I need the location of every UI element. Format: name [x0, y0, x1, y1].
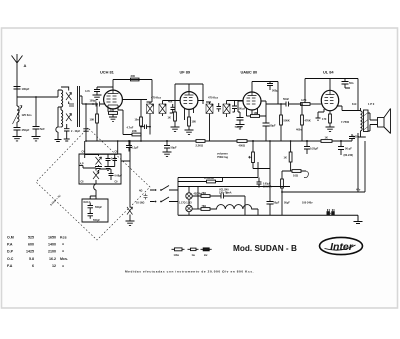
coil T1 secondary winding: [58, 107, 63, 127]
svg-text:500pF: 500pF: [93, 219, 100, 222]
svg-text:300: 300: [131, 74, 136, 78]
grid leak wire: [316, 112, 325, 120]
speaker cone: [384, 109, 391, 134]
capacitor 450pF to ground: [14, 122, 30, 137]
cathode resistor UCH81: [90, 103, 99, 141]
svg-text:500pF: 500pF: [95, 206, 102, 209]
svg-text:100pF: 100pF: [22, 87, 30, 91]
svg-text:1425: 1425: [26, 250, 34, 254]
wire osc box to padder box: [90, 196, 96, 199]
capacitor 100pF antenna series: [14, 87, 30, 92]
screen resistor UF89: [168, 112, 177, 127]
svg-text:2100: 2100: [48, 250, 56, 254]
svg-text:500K: 500K: [284, 119, 290, 123]
capacitor 100pF detector: [232, 101, 246, 113]
coil T1 primary winding: [58, 90, 63, 107]
dashed diamond chassis outline: [36, 128, 150, 240]
UL84 pin wires: [324, 79, 361, 115]
legend resistor one watt: [188, 248, 199, 257]
svg-text:2 - 10pF: 2 - 10pF: [71, 130, 81, 133]
ground second branch: [32, 137, 41, 141]
svg-text:=: =: [62, 264, 64, 268]
tube UABC80 envelope: [243, 92, 261, 110]
resistor dropper vertical: [281, 171, 284, 215]
svg-text:600: 600: [28, 243, 34, 247]
resistor 1K IF decoupling: [135, 100, 143, 142]
UABC80 electrodes: [247, 92, 257, 104]
dial lamp 2: [179, 202, 192, 212]
svg-text:10K: 10K: [90, 118, 95, 122]
svg-text:UCH 81: UCH 81: [100, 70, 115, 75]
svg-text:Mod. SUDAN - B: Mod. SUDAN - B: [233, 243, 297, 253]
svg-text:M.O.C: M.O.C: [84, 201, 91, 204]
cathode resistor 170: [322, 114, 331, 127]
volume potentiometer 750 log: [249, 140, 271, 169]
resistor 470 heater top: [198, 177, 223, 183]
oscillator box outline: [79, 154, 121, 184]
svg-text:4.7nF: 4.7nF: [127, 126, 134, 130]
UCH81 electrodes: [107, 90, 119, 107]
ground antenna branch: [13, 137, 22, 141]
svg-text:50 μF: 50 μF: [345, 147, 352, 151]
svg-text:1w: 1w: [192, 254, 195, 257]
ground aerial coil unit: [55, 127, 62, 142]
svg-text:1/2w: 1/2w: [174, 254, 179, 257]
capacitor 50nF plate bus: [342, 81, 354, 88]
wire branch x36: [35, 97, 37, 127]
capacitor 50nF coupling: [283, 97, 301, 107]
screen bus with 22K: [123, 110, 132, 135]
capacitor 0.05uF plate UABC80: [267, 82, 278, 93]
svg-text:4.7n: 4.7n: [85, 90, 90, 93]
wire antenna node to coil unit: [17, 96, 58, 98]
svg-text:6-98pF: 6-98pF: [115, 176, 123, 178]
svg-text:50nF: 50nF: [283, 97, 289, 101]
capacitor 0.25uF filter: [304, 136, 359, 155]
main AVC bus: [86, 134, 355, 141]
resistor 78 row2: [192, 205, 210, 211]
capacitor 0.05uF 250VCA: [257, 178, 273, 189]
svg-text:1K: 1K: [284, 156, 287, 160]
svg-text:5nF: 5nF: [40, 127, 45, 131]
capacitor 100pF grid series: [90, 100, 100, 107]
osc cap C2: [99, 155, 118, 166]
junction node: [35, 96, 37, 98]
svg-text:F.A: F.A: [7, 264, 13, 268]
dial lamp 1: [186, 193, 202, 200]
svg-text:0.25μ: 0.25μ: [353, 136, 360, 139]
svg-text:1400: 1400: [48, 243, 56, 247]
UF89 pin wires: [185, 84, 205, 120]
oscillator grid tap wire: [121, 141, 130, 161]
electrolytic 50uF detector: [263, 116, 276, 141]
svg-text:2w: 2w: [204, 254, 207, 257]
svg-text:Mcs.: Mcs.: [60, 257, 68, 261]
tube UCH81 envelope: [104, 90, 123, 109]
detector output wire: [266, 103, 286, 105]
svg-text:1M: 1M: [254, 111, 258, 115]
ground line x130: [126, 221, 135, 225]
wave band table: [7, 236, 68, 268]
svg-text:10-16Ω: 10-16Ω: [136, 202, 144, 205]
svg-text:50μF: 50μF: [270, 124, 276, 128]
capacitor 4.7nF screen: [127, 125, 151, 130]
dropper wavy resistor: [210, 205, 258, 216]
heater box outline wires: [178, 162, 290, 215]
svg-text:125 Kcs: 125 Kcs: [22, 113, 33, 117]
ground AF cap: [236, 125, 245, 129]
IF1 primary tuned trimmer: [147, 102, 154, 118]
svg-text:(80-240): (80-240): [344, 154, 354, 157]
electrolytic reservoir 50uF: [338, 140, 353, 157]
IF2 pin wires: [206, 101, 243, 142]
mains switch arm 1: [150, 186, 178, 191]
IF2 primary tuned trimmer: [206, 102, 213, 118]
svg-text:O.M: O.M: [7, 236, 14, 240]
resistor 2.2K bus: [196, 140, 206, 148]
cap 6-98pF: [99, 169, 123, 180]
resistor 1K filter: [321, 136, 332, 143]
svg-text:12: 12: [52, 264, 56, 268]
svg-text:470Ω/4w: 470Ω/4w: [204, 177, 214, 180]
legend resistor two watt: [201, 248, 212, 257]
svg-text:470 Kcs: 470 Kcs: [151, 96, 162, 100]
capacitor 4.7n osc decoupling: [85, 87, 113, 99]
svg-text:A: A: [24, 63, 27, 68]
svg-text:22K: 22K: [132, 129, 137, 133]
UF89 electrodes: [184, 92, 194, 104]
mains switch arm 2: [150, 197, 178, 202]
svg-text:16.2: 16.2: [49, 257, 56, 261]
svg-text:180: 180: [192, 120, 197, 124]
svg-text:0.25μF: 0.25μF: [310, 147, 319, 151]
gang series capacitor: [83, 129, 88, 131]
wire tuning gang line: [85, 104, 87, 141]
svg-text:470K: 470K: [305, 119, 311, 123]
electrolytic 50uF bus: [163, 140, 177, 156]
capacitor padding aerial: [69, 104, 74, 106]
transformer secondary return wires: [368, 113, 370, 131]
resistor 4.7K series grid: [301, 98, 322, 105]
svg-text:Inter: Inter: [330, 241, 354, 253]
svg-text:=: =: [62, 250, 64, 254]
padder cap 500pF lower: [88, 211, 101, 222]
tube UL84 envelope: [321, 90, 338, 110]
svg-text:78Ω: 78Ω: [202, 192, 207, 195]
UCH81 pin wires: [108, 80, 147, 112]
IF1 secondary tuned trimmer: [159, 101, 166, 117]
resistor 78 row1: [192, 192, 221, 198]
svg-text:=: =: [62, 243, 64, 247]
resistor 47 ohm: [109, 108, 118, 115]
capacitor 5nF to ground: [33, 127, 46, 137]
speaker tap labels: [136, 190, 148, 205]
osc cap C3: [113, 155, 118, 165]
svg-text:400Ω: 400Ω: [239, 143, 245, 147]
svg-text:1K: 1K: [325, 136, 328, 140]
svg-text:D.P: D.P: [7, 250, 14, 254]
output transformer T2: [341, 108, 368, 137]
IF2 coupling capacitor: [217, 103, 222, 112]
svg-text:5.8: 5.8: [29, 257, 34, 261]
47v rail: [282, 141, 365, 192]
svg-text:170: 170: [322, 117, 327, 121]
svg-text:100pF: 100pF: [90, 100, 98, 103]
svg-text:Kcs: Kcs: [60, 236, 67, 240]
resistor 1M diode load: [247, 111, 267, 118]
ground pin UCH81: [109, 114, 117, 121]
resistor 1K smoothing: [284, 140, 293, 171]
svg-text:10n: 10n: [135, 119, 140, 122]
svg-text:750Ω log: 750Ω log: [217, 155, 228, 159]
svg-text:1 P 0: 1 P 0: [368, 102, 375, 106]
svg-text:10Ω: 10Ω: [293, 173, 298, 177]
svg-text:UABC 80: UABC 80: [241, 70, 258, 75]
svg-text:100-240v: 100-240v: [302, 202, 313, 205]
ground UL84 cathode: [326, 127, 335, 131]
svg-text:6: 6: [32, 264, 34, 268]
lamp column wires: [188, 187, 190, 216]
top bus UL84: [305, 79, 358, 111]
svg-text:Medidas efectuadas con instrum: Medidas efectuadas con instrumento de 20…: [125, 270, 254, 274]
core lines T1: [78, 86, 80, 127]
svg-text:O.C: O.C: [7, 257, 14, 261]
wire coil secondary top to UCH81 grid: [80, 96, 105, 104]
svg-text:4.7K: 4.7K: [301, 98, 307, 102]
svg-text:UF 89: UF 89: [180, 70, 191, 75]
osc box top pin C4: [84, 141, 86, 154]
svg-text:250VCA: 250VCA: [263, 186, 272, 189]
Inter logo: [320, 237, 363, 254]
svg-text:470 Kcs: 470 Kcs: [208, 96, 219, 100]
svg-text:0.1μF: 0.1μF: [132, 146, 139, 150]
mains plug on rail: [327, 209, 335, 215]
svg-text:volumen: volumen: [217, 152, 228, 156]
coil L1 aerial shunt: [13, 97, 33, 124]
svg-text:50μF: 50μF: [171, 146, 177, 150]
ground osc caps: [105, 165, 115, 171]
svg-text:1K: 1K: [168, 116, 171, 120]
IF1 coupling capacitor: [168, 101, 175, 114]
resistor 22K: [132, 129, 141, 136]
osc trimmer 2: [83, 166, 99, 180]
resistor 300 on top bus: [131, 74, 140, 81]
resistor 500K AVC: [280, 103, 290, 141]
tube UF89 envelope: [180, 92, 198, 110]
antenna A: [12, 54, 27, 97]
svg-text:47v: 47v: [356, 188, 361, 192]
IF2 secondary tuned trimmer: [223, 101, 230, 118]
electrolytic mains filter column: [267, 140, 280, 215]
svg-text:400s: 400s: [296, 128, 302, 132]
svg-text:50n: 50n: [349, 81, 354, 85]
osc trimmer 1: [85, 155, 102, 165]
resistor 10 ohm surge: [282, 170, 308, 178]
junction cap 0.1uF: [126, 140, 139, 152]
svg-text:50μF: 50μF: [284, 202, 290, 205]
svg-text:525: 525: [28, 236, 34, 240]
ground UF89 cathode: [185, 130, 194, 134]
svg-text:78Ω: 78Ω: [202, 205, 207, 208]
UL84 electrodes: [325, 90, 335, 103]
svg-text:1650: 1650: [48, 236, 56, 240]
resistor 470K return: [296, 103, 311, 141]
legend resistor half watt: [172, 248, 185, 257]
osc box top pin C6: [117, 141, 119, 154]
svg-text:2.2KΩ: 2.2KΩ: [196, 143, 204, 147]
pin A.P left: [79, 165, 83, 167]
mains bottom rail: [178, 215, 363, 223]
trimmer CT1: [61, 87, 72, 104]
padder sub box: [82, 199, 108, 222]
plate top bus UCH81 to IF1: [113, 80, 152, 103]
trimmer cap 2-10pF to ground: [64, 124, 81, 141]
UABC80 pin wires: [238, 82, 278, 117]
ground osc trimmer1: [95, 165, 102, 171]
speaker magnet: [370, 113, 384, 131]
resistor 400 ohm bus: [237, 140, 247, 148]
cathode resistor UF89: [188, 117, 197, 130]
series capacitor row1: [221, 193, 245, 215]
svg-text:P.A: P.A: [7, 243, 13, 247]
IF1 pin wires: [147, 101, 181, 135]
padder cap 500pF upper: [88, 203, 103, 211]
svg-text:50μF: 50μF: [274, 202, 280, 205]
padder trimmer on line x130: [127, 161, 133, 221]
trimmer CT2: [66, 114, 72, 122]
ground screen UF89: [171, 127, 180, 131]
osc coil below trimmer2: [94, 180, 96, 196]
svg-text:7-7500: 7-7500: [341, 120, 350, 124]
screen feed wire UF89: [175, 84, 189, 112]
svg-text:500μ: 500μ: [272, 89, 278, 93]
svg-text:1.17Ω 1.5/3: 1.17Ω 1.5/3: [179, 202, 192, 205]
svg-text:450pF: 450pF: [22, 128, 30, 132]
capacitor AF coupling 700nF: [235, 112, 244, 129]
svg-text:A.P: A.P: [80, 162, 84, 165]
svg-text:4Ω: 4Ω: [139, 190, 142, 193]
svg-text:UL 84: UL 84: [323, 70, 334, 75]
